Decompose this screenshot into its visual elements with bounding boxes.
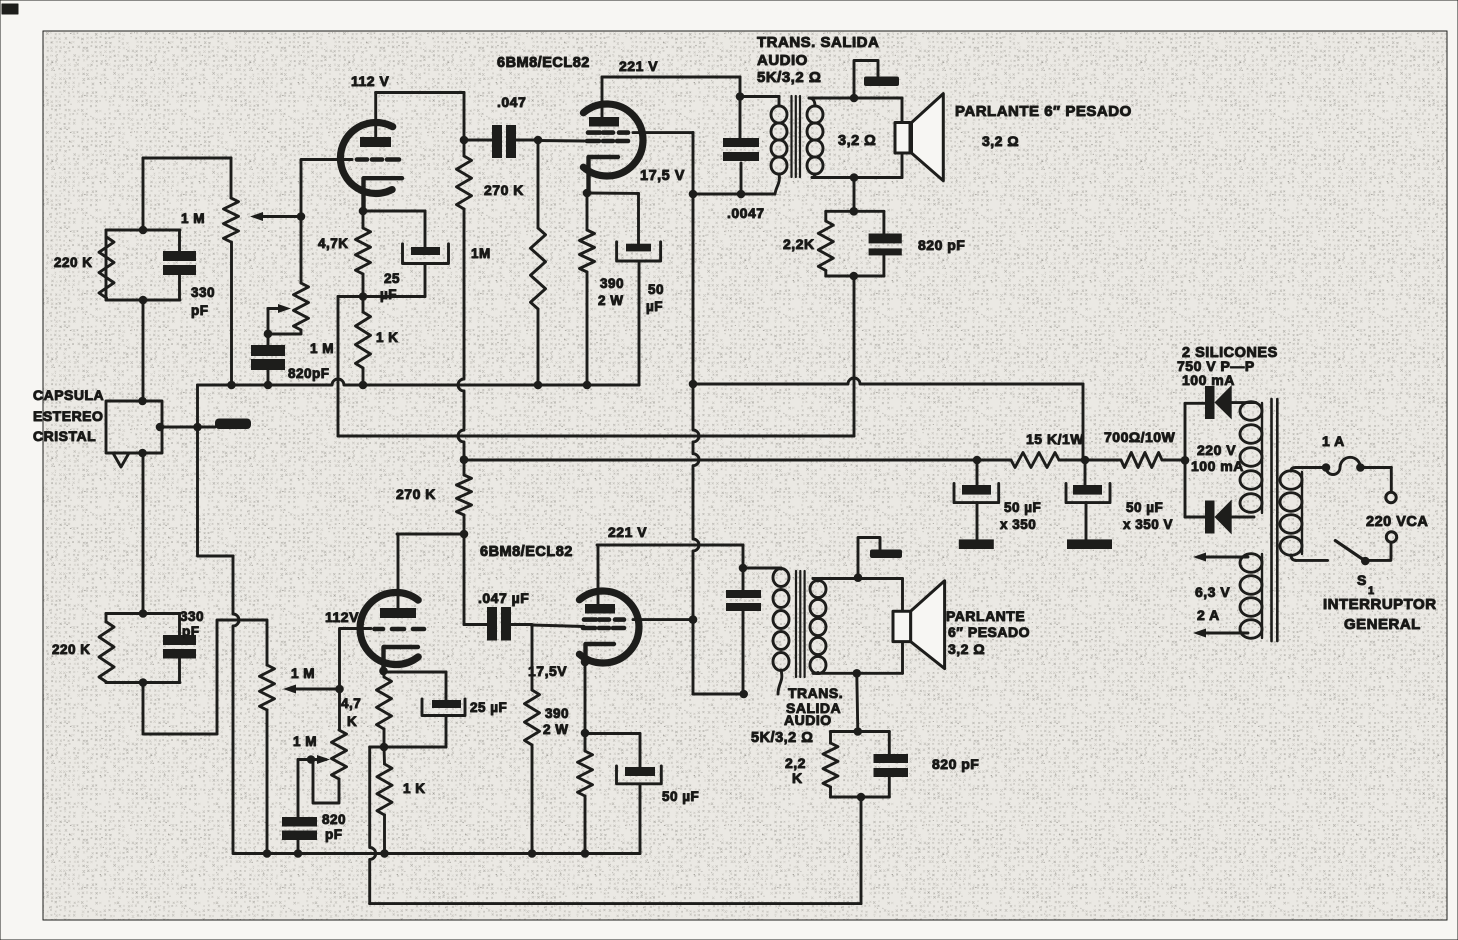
svg-text:1 M: 1 M bbox=[310, 341, 334, 356]
svg-text:2 W: 2 W bbox=[543, 722, 569, 737]
svg-text:270 K: 270 K bbox=[484, 182, 524, 198]
svg-text:1 M: 1 M bbox=[293, 734, 317, 749]
svg-text:25: 25 bbox=[384, 271, 400, 286]
svg-text:x 350 V: x 350 V bbox=[1123, 517, 1173, 532]
svg-text:6BM8/ECL82: 6BM8/ECL82 bbox=[497, 55, 590, 71]
svg-text:TRANS.: TRANS. bbox=[788, 685, 843, 701]
svg-text:4,7K: 4,7K bbox=[318, 236, 349, 251]
svg-text:700Ω/10W: 700Ω/10W bbox=[1104, 429, 1176, 445]
svg-text:50 µF: 50 µF bbox=[1126, 500, 1163, 515]
svg-text:1 A: 1 A bbox=[1322, 433, 1345, 449]
svg-text:330: 330 bbox=[191, 285, 215, 300]
svg-text:6,3 V: 6,3 V bbox=[1195, 584, 1230, 600]
svg-text:CRISTAL: CRISTAL bbox=[33, 428, 96, 444]
svg-text:INTERRUPTOR: INTERRUPTOR bbox=[1323, 596, 1437, 613]
svg-text:17,5 V: 17,5 V bbox=[640, 168, 685, 184]
svg-text:AUDIO: AUDIO bbox=[784, 712, 832, 728]
svg-text:820 pF: 820 pF bbox=[932, 756, 979, 772]
svg-text:2 A: 2 A bbox=[1197, 607, 1220, 623]
svg-text:220 V: 220 V bbox=[1197, 442, 1236, 458]
svg-text:pF: pF bbox=[182, 624, 200, 639]
svg-text:390: 390 bbox=[545, 706, 569, 721]
svg-text:K: K bbox=[792, 770, 803, 786]
svg-text:112 V: 112 V bbox=[351, 73, 389, 89]
svg-text:270 K: 270 K bbox=[396, 486, 436, 502]
svg-text:AUDIO: AUDIO bbox=[757, 52, 808, 69]
svg-text:3,2 Ω: 3,2 Ω bbox=[948, 641, 985, 657]
svg-text:25 µF: 25 µF bbox=[470, 700, 507, 715]
svg-text:820 pF: 820 pF bbox=[918, 237, 965, 253]
svg-text:1 K: 1 K bbox=[376, 330, 399, 345]
svg-text:221 V: 221 V bbox=[619, 58, 658, 74]
svg-text:50: 50 bbox=[648, 282, 664, 297]
svg-text:1 K: 1 K bbox=[403, 781, 426, 796]
svg-text:220 VCA: 220 VCA bbox=[1366, 514, 1428, 530]
svg-text:2,2: 2,2 bbox=[785, 755, 806, 771]
svg-text:50 µF: 50 µF bbox=[1004, 500, 1041, 515]
svg-text:112V: 112V bbox=[325, 609, 359, 625]
svg-text:pF: pF bbox=[191, 303, 209, 318]
svg-text:ESTEREO: ESTEREO bbox=[33, 408, 103, 424]
svg-text:.0047: .0047 bbox=[727, 205, 765, 221]
svg-text:3,2 Ω: 3,2 Ω bbox=[838, 133, 876, 149]
svg-text:4,7: 4,7 bbox=[341, 696, 361, 711]
svg-text:S: S bbox=[1357, 572, 1367, 588]
svg-text:1 M: 1 M bbox=[181, 211, 205, 226]
svg-text:2,2K: 2,2K bbox=[783, 236, 815, 252]
svg-text:3,2 Ω: 3,2 Ω bbox=[982, 133, 1019, 149]
svg-text:GENERAL: GENERAL bbox=[1344, 616, 1421, 633]
svg-text:.047: .047 bbox=[497, 94, 526, 110]
svg-text:PARLANTE 6″ PESADO: PARLANTE 6″ PESADO bbox=[955, 103, 1132, 120]
svg-text:.047 µF: .047 µF bbox=[478, 590, 529, 606]
svg-text:330: 330 bbox=[180, 609, 204, 624]
svg-text:220 K: 220 K bbox=[52, 642, 91, 657]
svg-text:µF: µF bbox=[646, 299, 663, 314]
svg-text:1M: 1M bbox=[471, 246, 491, 261]
svg-text:5K/3,2 Ω: 5K/3,2 Ω bbox=[751, 730, 813, 746]
svg-text:220 K: 220 K bbox=[54, 255, 93, 270]
svg-text:390: 390 bbox=[600, 276, 624, 291]
svg-text:100 mA: 100 mA bbox=[1182, 372, 1235, 388]
svg-text:TRANS. SALIDA: TRANS. SALIDA bbox=[757, 34, 879, 51]
svg-text:K: K bbox=[347, 714, 357, 729]
svg-text:17,5V: 17,5V bbox=[528, 663, 567, 679]
svg-text:6″ PESADO: 6″ PESADO bbox=[948, 624, 1030, 640]
svg-text:PARLANTE: PARLANTE bbox=[946, 608, 1025, 624]
svg-text:1 M: 1 M bbox=[291, 666, 315, 681]
svg-text:6BM8/ECL82: 6BM8/ECL82 bbox=[480, 544, 573, 560]
svg-text:µF: µF bbox=[380, 287, 397, 302]
svg-text:CAPSULA: CAPSULA bbox=[33, 387, 104, 403]
svg-text:pF: pF bbox=[325, 827, 343, 842]
svg-text:100 mA: 100 mA bbox=[1191, 458, 1244, 474]
svg-text:820: 820 bbox=[322, 812, 346, 827]
svg-text:x 350: x 350 bbox=[1000, 517, 1036, 532]
svg-text:5K/3,2 Ω: 5K/3,2 Ω bbox=[757, 69, 821, 86]
svg-text:15 K/1W: 15 K/1W bbox=[1026, 431, 1084, 447]
svg-text:2 W: 2 W bbox=[598, 293, 624, 308]
svg-text:221 V: 221 V bbox=[608, 524, 647, 540]
svg-text:820pF: 820pF bbox=[288, 366, 330, 381]
svg-text:50 µF: 50 µF bbox=[662, 789, 699, 804]
